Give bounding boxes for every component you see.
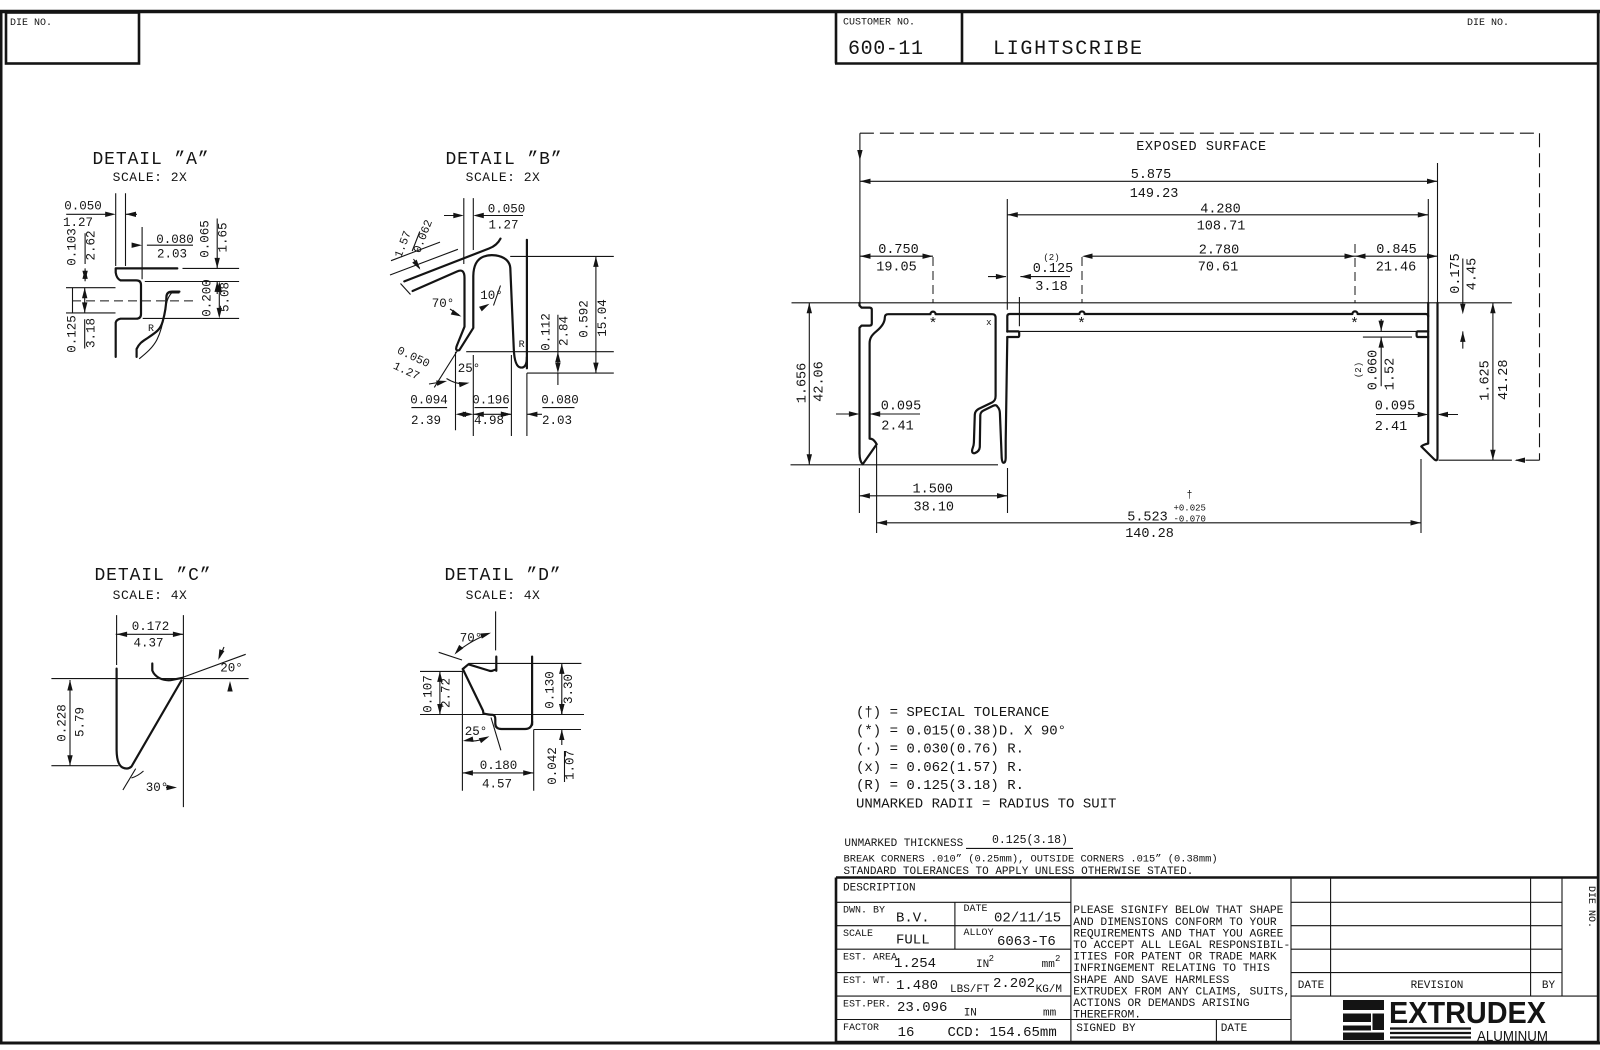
svg-text:5.08: 5.08 [219,282,233,312]
tolerance star marks [928,316,1359,333]
svg-text:DESCRIPTION: DESCRIPTION [843,883,916,895]
svg-text:0.125: 0.125 [1033,262,1074,277]
svg-text:-0.070: -0.070 [1174,515,1206,525]
dimension 2.780 / 70.61 [1082,243,1355,275]
detail B 70 deg label [432,297,463,319]
svg-text:DATE: DATE [964,904,988,915]
detail D reference lines [420,611,584,790]
svg-text:KG/M: KG/M [1036,984,1062,996]
svg-text:EST. WT.: EST. WT. [843,976,891,987]
svg-text:1.27: 1.27 [488,219,518,233]
svg-text:25°: 25° [458,362,481,376]
break corners note [844,854,1218,866]
svg-text:DATE: DATE [1298,980,1325,992]
svg-text:1.65: 1.65 [217,222,231,252]
svg-text:0.080: 0.080 [541,394,579,408]
svg-text:SIGNED BY: SIGNED BY [1076,1023,1136,1035]
svg-text:1.27: 1.27 [63,216,93,230]
svg-text:3.18: 3.18 [85,318,99,348]
svg-text:2.03: 2.03 [157,248,187,262]
detail D title [444,566,561,603]
svg-text:1.500: 1.500 [913,483,954,498]
dimension 5.875 / 149.23 [860,163,1438,302]
customer no box [835,13,1598,64]
svg-text:ALLOY: ALLOY [964,928,994,939]
svg-text:2.72: 2.72 [440,678,454,708]
detail D dim 0.042/1.07 (rotated) [546,700,578,785]
svg-text:4.37: 4.37 [133,637,163,651]
svg-text:REVISION: REVISION [1411,980,1464,992]
svg-text:STANDARD TOLERANCES TO APPLY U: STANDARD TOLERANCES TO APPLY UNLESS OTHE… [844,866,1194,878]
detail A centerline and left cut box [66,288,195,313]
dimension 0.845 / 21.46 [1355,243,1438,275]
svg-text:DWN. BY: DWN. BY [843,906,885,917]
svg-text:x: x [986,318,991,328]
detail B profile: wall with 25 deg nib, hook slot and slanted arm [404,239,527,369]
main profile bottom reference line [791,464,999,466]
svg-text:CUSTOMER NO.: CUSTOMER NO. [843,18,915,29]
svg-text:THEREFROM.: THEREFROM. [1073,1010,1141,1022]
box right wall upper part and web top surface with dimples [1007,311,1428,331]
Extrudex logo text [1389,995,1548,1045]
svg-text:2: 2 [989,954,994,964]
svg-text:20°: 20° [220,662,243,676]
detail C profile: foot with 30 deg notch and corner hook [117,664,183,769]
svg-text:IN: IN [964,1007,977,1019]
dimension 4.280 / 108.71 [1007,199,1428,310]
revision table header [1298,980,1556,992]
detail D 70 deg label [452,630,491,656]
dimension 1.625 / 41.28 (rotated) [1439,303,1513,460]
svg-text:0.175: 0.175 [1449,253,1464,294]
detail D dim 0.130/3.30 (rotated) [544,663,576,714]
right flange outline with foot [1421,303,1437,460]
svg-text:UNMARKED RADII = RADIUS TO SUI: UNMARKED RADII = RADIUS TO SUIT [856,797,1116,813]
svg-text:DIE NO.: DIE NO. [10,18,52,29]
svg-text:42.06: 42.06 [813,361,828,402]
svg-text:DETAIL ”A”: DETAIL ”A” [92,150,209,170]
svg-text:600-11: 600-11 [848,38,924,61]
svg-text:(2): (2) [1354,362,1364,378]
svg-text:ACTIONS OR DEMANDS ARISING: ACTIONS OR DEMANDS ARISING [1073,998,1249,1010]
svg-text:*: * [1077,316,1086,333]
svg-text:0.228: 0.228 [56,704,70,742]
detail B dim 0.592/15.04 (rotated) [510,256,614,373]
svg-text:INFRINGEMENT RELATING TO THIS: INFRINGEMENT RELATING TO THIS [1073,963,1270,975]
svg-text:*: * [928,316,937,333]
svg-text:2.41: 2.41 [881,420,913,435]
signed by / date row [1076,1023,1247,1035]
detail B 10 deg label [479,286,503,312]
svg-text:CCD: 154.65mm: CCD: 154.65mm [948,1025,1057,1041]
svg-text:30°: 30° [146,781,169,795]
svg-text:FACTOR: FACTOR [843,1023,879,1034]
svg-text:(R) = 0.125(3.18) R.: (R) = 0.125(3.18) R. [856,778,1024,794]
detail A dim 0.080/2.03 [112,227,194,279]
svg-text:DETAIL ”D”: DETAIL ”D” [444,566,561,586]
dimension 0.095 / 2.41 (left wall) [836,400,921,435]
svg-text:4.57: 4.57 [482,778,512,792]
svg-text:0.060: 0.060 [1367,350,1382,391]
Extrudex logo mark [1343,1000,1384,1040]
dimension 1.500 / 38.10 [859,468,1007,516]
detail B 25 deg label and arc [447,362,481,387]
svg-text:UNMARKED THICKNESS: UNMARKED THICKNESS [844,838,963,850]
svg-text:19.05: 19.05 [876,261,917,276]
main profile: left box outline with screw notch, cavity, hook and foot; central web top [860,303,1008,464]
detail C dim 0.172/4.37 [116,620,184,651]
svg-text:3.18: 3.18 [1035,280,1067,295]
svg-text:B.V.: B.V. [896,911,930,927]
svg-text:0.592: 0.592 [578,300,592,338]
dimension (2) 0.060 / 1.52 (rotated) [1354,319,1412,390]
svg-text:0.042: 0.042 [546,747,560,785]
svg-text:(x) = 0.062(1.57) R.: (x) = 0.062(1.57) R. [856,760,1024,776]
svg-text:ALUMINUM: ALUMINUM [1477,1029,1548,1045]
svg-text:0.103: 0.103 [66,228,80,266]
svg-text:0.050: 0.050 [64,200,102,214]
svg-text:2.39: 2.39 [411,414,441,428]
svg-text:0.050: 0.050 [488,203,526,217]
svg-text:21.46: 21.46 [1376,261,1417,276]
svg-text:(·) = 0.030(0.76) R.: (·) = 0.030(0.76) R. [856,742,1024,758]
detail B bottom dims 0.094/2.39, 0.196/4.98, 0.080/2.03 [410,352,579,436]
svg-text:0.080: 0.080 [156,233,194,247]
detail B title [445,150,562,185]
svg-text:41.28: 41.28 [1497,360,1512,401]
svg-text:SCALE: 2X: SCALE: 2X [466,170,541,185]
svg-text:DIE NO.: DIE NO. [1467,18,1509,29]
svg-text:SCALE: SCALE [843,929,873,940]
detail A dim 0.050/1.27 [63,193,137,266]
right flange lip (0.060 tab) [1417,331,1429,337]
die no label top-right [1467,18,1509,29]
title LIGHTSCRIBE [993,38,1144,61]
dimension (2) 0.125 / 3.18 [988,253,1073,326]
svg-text:DETAIL ”B”: DETAIL ”B” [445,150,562,170]
svg-text:*: * [1350,316,1359,333]
detail A title [92,150,209,185]
svg-text:FULL: FULL [896,933,930,949]
dimension 0.750 / 19.05 [860,243,933,275]
unmarked thickness note [844,834,1073,850]
svg-text:0.125(3.18): 0.125(3.18) [992,834,1068,847]
vertical die no label [1585,886,1596,928]
svg-text:0.095: 0.095 [1375,400,1416,415]
svg-text:EXPOSED SURFACE: EXPOSED SURFACE [1136,140,1267,155]
svg-text:DATE: DATE [1221,1023,1248,1035]
svg-text:ITIES FOR PATENT OR TRADE MARK: ITIES FOR PATENT OR TRADE MARK [1073,952,1277,964]
svg-text:1.254: 1.254 [894,956,936,972]
svg-text:0.125: 0.125 [66,315,80,353]
svg-text:1.656: 1.656 [796,363,811,404]
svg-text:2.41: 2.41 [1375,420,1407,435]
svg-text:4.98: 4.98 [474,414,504,428]
svg-text:DIE NO.: DIE NO. [1585,886,1596,928]
svg-text:1.52: 1.52 [1384,358,1399,390]
svg-text:0.750: 0.750 [878,243,919,258]
svg-text:1.07: 1.07 [564,750,578,780]
detail C title [94,566,211,603]
svg-text:+0.025: +0.025 [1174,504,1206,514]
title block outer frame [836,878,1597,1044]
title block grid lines [836,878,1597,1044]
detail B dim 0.112/2.84 (rotated) [466,313,614,385]
svg-text:2.202: 2.202 [993,976,1035,992]
svg-text:0.107: 0.107 [422,675,436,713]
svg-text:REQUIREMENTS AND THAT YOU AGRE: REQUIREMENTS AND THAT YOU AGREE [1073,928,1283,940]
title block labels and values [843,883,1062,1042]
detail B band break cap [401,284,411,295]
svg-text:16: 16 [898,1025,915,1041]
svg-text:4.45: 4.45 [1465,258,1480,290]
svg-text:mm: mm [1042,959,1056,971]
tolerance legend notes [856,705,1116,813]
detail C reference lines [51,615,248,807]
dimension 1.656 / 42.06 (rotated) [796,303,828,465]
detail A break squiggle [139,293,179,359]
svg-text:EST. AREA: EST. AREA [843,953,897,964]
svg-text:SCALE: 4X: SCALE: 4X [113,588,188,603]
detail B slanted dim 0.050/1.27 lower-left [391,345,458,388]
detail C 30 deg label [131,771,177,795]
detail D 25 deg label and arc [462,725,490,744]
svg-text:EST.PER.: EST.PER. [843,1000,891,1011]
detail B nib tip rounding [456,345,462,351]
svg-text:0.200: 0.200 [201,279,215,317]
svg-text:0.094: 0.094 [410,394,448,408]
detail A dim 0.200/5.08 (rotated) [143,272,239,330]
svg-text:2: 2 [1055,954,1060,964]
svg-text:1.625: 1.625 [1479,360,1494,401]
svg-text:6063-T6: 6063-T6 [997,934,1056,950]
svg-text:02/11/15: 02/11/15 [994,911,1061,927]
svg-text:70.61: 70.61 [1198,261,1239,276]
svg-text:R: R [148,324,154,335]
svg-text:108.71: 108.71 [1197,220,1246,235]
dimension 0.095 / 2.41 (right flange) [1375,400,1458,435]
detail D dim 0.180/4.57 [462,759,533,792]
svg-text:SCALE: 2X: SCALE: 2X [113,170,188,185]
svg-text:5.79: 5.79 [74,707,88,737]
svg-text:mm: mm [1043,1007,1057,1019]
die no box top-left [6,13,139,64]
svg-text:PLEASE SIGNIFY BELOW THAT SHAP: PLEASE SIGNIFY BELOW THAT SHAPE [1073,905,1283,917]
svg-text:0.130: 0.130 [544,671,558,709]
svg-text:TO ACCEPT ALL LEGAL RESPONSIBI: TO ACCEPT ALL LEGAL RESPONSIBIL- [1073,940,1290,952]
svg-text:SCALE: 4X: SCALE: 4X [466,588,541,603]
svg-text:0.180: 0.180 [480,759,518,773]
svg-text:2.780: 2.780 [1199,243,1240,258]
svg-text:EXTRUDEX FROM ANY CLAIMS, SUIT: EXTRUDEX FROM ANY CLAIMS, SUITS, [1073,986,1290,998]
legal text paragraph [1073,905,1290,1021]
svg-text:(*) = 0.015(0.38)D. X 90°: (*) = 0.015(0.38)D. X 90° [856,723,1066,739]
exposed surface dashed boundary [857,133,1539,463]
svg-text:AND DIMENSIONS CONFORM TO YOUR: AND DIMENSIONS CONFORM TO YOUR [1073,917,1277,929]
svg-text:0.065: 0.065 [199,220,213,258]
detail C 20 deg label [183,647,245,692]
svg-text:5.875: 5.875 [1131,168,1172,183]
detail D dim 0.107/2.72 (rotated) [422,671,454,714]
svg-text:SHAPE AND SAVE HARMLESS: SHAPE AND SAVE HARMLESS [1073,975,1229,987]
right flange screw notch [1415,316,1428,332]
detail A profile: wall with screw notch, cavity corner and break line [116,268,180,357]
svg-text:0.845: 0.845 [1376,243,1417,258]
svg-text:25°: 25° [465,725,488,739]
dashed centerlines at star positions [933,244,1355,303]
svg-text:DETAIL ”C”: DETAIL ”C” [94,566,211,586]
detail C dim 0.228/5.79 (rotated) [56,680,88,766]
svg-text:BY: BY [1542,980,1556,992]
svg-text:0.112: 0.112 [540,313,554,351]
detail B slanted dim (2) 0.062/1.57 [390,218,458,275]
svg-text:140.28: 140.28 [1125,527,1174,542]
main profile top reference line (exposed surface) [792,302,1512,304]
detail B dim 0.050/1.27 top [444,198,525,264]
svg-text:0.196: 0.196 [472,394,510,408]
svg-text:1.480: 1.480 [896,978,938,994]
svg-text:†: † [1186,490,1192,502]
svg-text:5.523: 5.523 [1127,510,1168,525]
svg-text:149.23: 149.23 [1130,187,1179,202]
svg-text:BREAK CORNERS .010” (0.25mm),: BREAK CORNERS .010” (0.25mm), OUTSIDE CO… [844,854,1218,866]
svg-text:0.172: 0.172 [132,620,170,634]
detail A radius label R [148,324,154,335]
svg-text:R: R [519,340,525,351]
svg-text:LBS/FT: LBS/FT [950,984,990,996]
dimension 0.175 / 4.45 (rotated) [1449,253,1481,348]
svg-text:EXTRUDEX: EXTRUDEX [1389,995,1546,1030]
svg-text:LIGHTSCRIBE: LIGHTSCRIBE [993,38,1144,61]
svg-text:0.095: 0.095 [881,400,922,415]
svg-text:23.096: 23.096 [897,1000,947,1016]
svg-text:2.84: 2.84 [558,316,572,346]
svg-text:3.30: 3.30 [562,674,576,704]
detail D profile: web end with 70/25 deg chamfers, slot and flange wall [463,657,532,729]
detail B radius label R [519,340,525,351]
svg-text:4.280: 4.280 [1200,202,1241,217]
standard tolerances note [844,866,1194,878]
detail A dim 0.125/3.18 (rotated) [66,288,99,353]
svg-text:(†) = SPECIAL TOLERANCE: (†) = SPECIAL TOLERANCE [856,705,1049,721]
svg-text:2.62: 2.62 [85,230,99,260]
web bottom surface [1019,330,1416,332]
svg-text:10°: 10° [480,289,503,303]
svg-text:IN: IN [976,959,989,971]
svg-text:38.10: 38.10 [914,501,955,516]
detail A dim 0.065/1.65 (rotated) [145,219,239,295]
box wall lip (0.060 tab) [1007,331,1019,337]
svg-text:2.03: 2.03 [542,414,572,428]
detail A dim 0.103/2.62 (rotated) [66,228,99,281]
dimension 5.523 +0.025/-0.070 / 140.28 [877,446,1421,542]
svg-text:15.04: 15.04 [596,299,610,337]
svg-text:70°: 70° [432,297,455,311]
